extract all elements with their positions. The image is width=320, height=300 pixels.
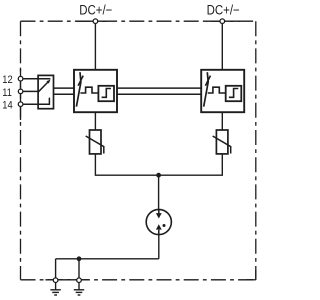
spark gap unit 1 thermal tick	[78, 76, 83, 86]
terminal 11	[18, 89, 23, 94]
spark gap unit 2 thermal tick	[205, 76, 210, 86]
ground symbol 2	[74, 283, 84, 295]
spark gap unit 1 (box)	[74, 70, 117, 112]
contact lever (11)	[24, 90, 39, 92]
spark gap unit 1 pulse waveform	[80, 87, 98, 93]
svg-text:14: 14	[2, 100, 13, 112]
junction: earth bus over terminal 2	[77, 256, 82, 261]
terminal 12	[18, 76, 23, 81]
spark gap unit 2 step symbol	[229, 89, 238, 98]
terminal earth 2	[77, 278, 82, 283]
wire: left DC terminal to spark-gap unit 1	[94, 21, 96, 70]
spark gap unit 1 signalling box	[98, 86, 114, 101]
junction: common node of varistors	[156, 173, 161, 178]
terminal DC+/- right	[220, 19, 225, 24]
spark gap unit 2 pulse waveform	[208, 87, 226, 93]
terminal earth 1	[53, 278, 58, 283]
remote signalling changeover contact (box)	[38, 75, 53, 108]
spark gap unit 1 step symbol	[102, 89, 111, 98]
svg-text:DC+/−: DC+/−	[79, 3, 112, 18]
wire: earth bus	[56, 258, 159, 260]
wire: common node to gas discharge tube	[158, 175, 160, 209]
spark gap unit 2 disconnector lever	[204, 72, 209, 106]
wire: gas discharge tube to earth bus	[158, 235, 160, 259]
ground symbol 1	[50, 283, 60, 295]
spark gap unit 1 disconnector lever	[76, 72, 81, 106]
svg-text:12: 12	[2, 74, 13, 86]
spark gap unit 2 (box)	[201, 70, 244, 112]
gas discharge tube (triggered spark gap)	[146, 209, 171, 234]
wire: right DC terminal to spark-gap unit 2	[221, 21, 223, 70]
wire: varistor 1 down and to common node	[95, 154, 158, 175]
svg-text:11: 11	[2, 87, 12, 99]
varistor 1 (MOV)	[90, 130, 102, 154]
svg-text:DC+/−: DC+/−	[207, 3, 240, 18]
contact 12 line	[24, 78, 51, 80]
wire: varistor 2 down and to common node	[159, 154, 223, 175]
wire: unit 1 to varistor 1	[94, 112, 96, 130]
terminal DC+/- left	[93, 19, 98, 24]
wire: unit 2 to varistor 2	[221, 112, 223, 130]
contact 14 line with stub	[24, 98, 50, 105]
wire: drop to earth terminal 2	[78, 259, 80, 280]
mechanical link double line: unit 1 to unit 2	[117, 88, 201, 94]
spark gap unit 2 signalling box	[226, 86, 242, 101]
wire: drop to earth terminal 1	[55, 259, 57, 280]
varistor 2 (MOV)	[216, 130, 228, 154]
terminal 14	[18, 102, 23, 107]
device enclosure (dash-dot boundary)	[21, 21, 256, 280]
mechanical link double line: contact to unit 1	[54, 88, 75, 94]
